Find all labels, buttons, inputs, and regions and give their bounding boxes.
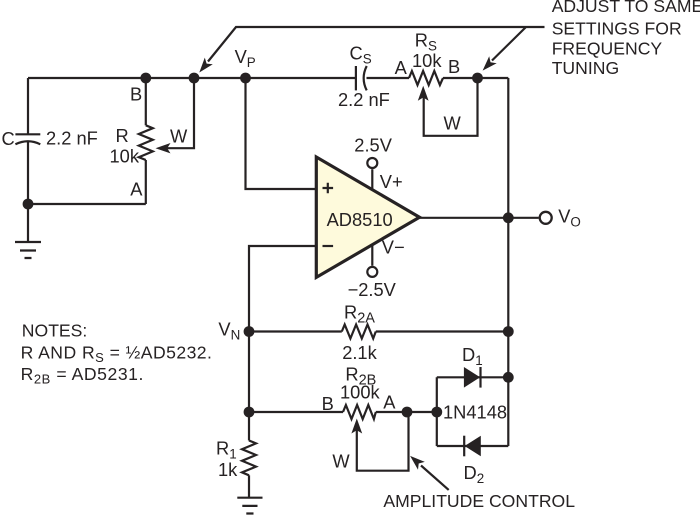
wire R wiper W — [166, 78, 194, 148]
resistor RS 10k zigzag — [409, 71, 443, 85]
svg-text:R: R — [116, 125, 129, 146]
svg-text:TUNING: TUNING — [552, 58, 619, 78]
svg-text:NOTES:: NOTES: — [22, 320, 88, 340]
arrowhead RS wiper (points up) — [418, 86, 429, 101]
svg-text:FREQUENCY: FREQUENCY — [552, 38, 663, 58]
node D1 rail dot — [503, 372, 514, 383]
diode D1 (1N4148) — [464, 367, 482, 388]
terminal V+ circle — [367, 158, 377, 168]
wire ground stub left — [27, 204, 29, 242]
svg-text:SETTINGS FOR: SETTINGS FOR — [552, 18, 682, 38]
diode D2 (1N4148) — [463, 436, 481, 457]
ground R1 bars — [237, 498, 262, 514]
svg-text:W: W — [444, 113, 462, 134]
wire top rail y=78 left segment — [28, 77, 356, 79]
svg-text:2.5V: 2.5V — [354, 135, 392, 156]
wire top rail CS to RS — [367, 77, 410, 79]
node R2B left dot — [244, 407, 255, 418]
wire RS wiper W box — [424, 78, 478, 136]
svg-text:V−: V− — [382, 236, 405, 257]
svg-text:CS: CS — [350, 43, 372, 67]
svg-text:B: B — [130, 84, 142, 105]
svg-text:V+: V+ — [380, 171, 403, 192]
wire op-amp minus input to VN vertical — [249, 246, 316, 332]
op-amp minus input marker — [323, 245, 334, 247]
svg-text:A: A — [383, 392, 396, 413]
arrowhead annotation left (points down-left at VP junction) — [199, 58, 213, 73]
node VP dot — [240, 73, 251, 84]
wire R2A to rail — [376, 330, 509, 332]
wire op-amp output — [420, 217, 509, 219]
wire D1 row — [437, 376, 509, 378]
node diode box left dot — [431, 407, 442, 418]
svg-text:2.1k: 2.1k — [342, 342, 377, 363]
capacitor CS plate curved — [364, 66, 367, 90]
svg-text:W: W — [332, 450, 350, 471]
capacitor C plate curved — [15, 141, 40, 144]
wire R1 top — [248, 412, 250, 441]
svg-text:A: A — [395, 57, 408, 78]
svg-text:B: B — [322, 393, 334, 414]
svg-text:VN: VN — [218, 319, 240, 343]
svg-text:2.2 nF: 2.2 nF — [338, 89, 390, 110]
resistor R1 1k zigzag — [242, 441, 256, 476]
wire output rail vertical x=508 — [507, 78, 509, 446]
svg-text:D2: D2 — [464, 462, 485, 486]
wire V+ pin stub — [371, 169, 373, 189]
svg-text:C: C — [2, 128, 15, 149]
op-amp U1 AD8510 triangle — [316, 157, 419, 277]
svg-text:R2A: R2A — [344, 302, 375, 327]
svg-text:10k: 10k — [110, 145, 140, 166]
wire left vertical upper (to C) — [27, 78, 29, 134]
svg-text:100k: 100k — [340, 382, 381, 403]
wire D2 row — [437, 445, 509, 447]
wire R2B row left — [249, 411, 343, 413]
wire R2B wiper W — [357, 412, 409, 471]
svg-text:VP: VP — [235, 46, 256, 70]
node junction dot wiper R — [189, 73, 200, 84]
svg-text:1k: 1k — [218, 459, 238, 480]
node VN dot — [244, 326, 255, 337]
arrowhead R wiper (points left) — [156, 143, 171, 153]
terminal VO circle — [540, 212, 552, 224]
op-amp plus input marker — [323, 183, 334, 194]
ground left bars — [15, 242, 41, 258]
wire top rail RS B to corner — [443, 77, 508, 79]
svg-text:R AND RS = ½AD5232.: R AND RS = ½AD5232. — [21, 342, 213, 365]
node R2B A dot — [402, 407, 413, 418]
svg-text:2.2 nF: 2.2 nF — [46, 128, 98, 149]
svg-text:ADJUST TO SAME: ADJUST TO SAME — [552, 0, 700, 16]
svg-text:VO: VO — [558, 206, 581, 230]
wire V- pin stub — [371, 245, 373, 265]
node junction dot B top — [140, 73, 151, 84]
wire diode box left vertical — [436, 377, 438, 446]
wire VN row to R2A — [249, 330, 342, 332]
wire VN vertical to R2B row — [248, 332, 250, 413]
node R2A right dot — [503, 326, 514, 337]
svg-text:D1: D1 — [462, 344, 483, 368]
wire VP vertical to op-amp plus input — [246, 78, 317, 189]
wire pot R bottom — [145, 160, 147, 204]
wire VO stub — [508, 217, 538, 219]
node output VO dot — [503, 212, 514, 223]
arrowhead R2B wiper (points up) — [351, 419, 362, 434]
leader line ADJUST annotation — [208, 27, 545, 62]
wire pot R top — [145, 78, 147, 125]
wire R1 to ground — [248, 475, 250, 497]
svg-text:AD8510: AD8510 — [327, 209, 393, 230]
svg-text:1N4148: 1N4148 — [443, 402, 507, 423]
node RS B dot — [472, 73, 483, 84]
wire bottom left y=204 — [28, 203, 146, 205]
svg-text:B: B — [448, 56, 460, 77]
capacitor CS plate flat — [355, 66, 357, 90]
svg-text:−2.5V: −2.5V — [348, 279, 397, 300]
resistor R2A 2.1k zigzag — [342, 325, 376, 339]
node bottom-left dot — [23, 199, 34, 210]
arrow AMPLITUDE CONTROL leader — [421, 466, 449, 490]
arrowhead annotation right (points down-left at RS B node) — [483, 56, 497, 70]
capacitor C plate flat — [15, 133, 40, 135]
wire left vertical lower (C to bottom) — [27, 142, 29, 204]
wire R2B to diode box — [376, 411, 437, 413]
resistor R 10k zigzag — [139, 125, 153, 160]
svg-text:A: A — [130, 179, 143, 200]
svg-text:R2B = AD5231.: R2B = AD5231. — [21, 364, 144, 387]
svg-text:AMPLITUDE CONTROL: AMPLITUDE CONTROL — [383, 491, 575, 511]
svg-text:W: W — [170, 126, 188, 147]
resistor R2B 100k zigzag — [343, 405, 376, 419]
svg-text:10k: 10k — [412, 50, 442, 71]
terminal V- circle — [367, 267, 377, 277]
arrowhead amplitude control (points up-left) — [410, 456, 425, 470]
